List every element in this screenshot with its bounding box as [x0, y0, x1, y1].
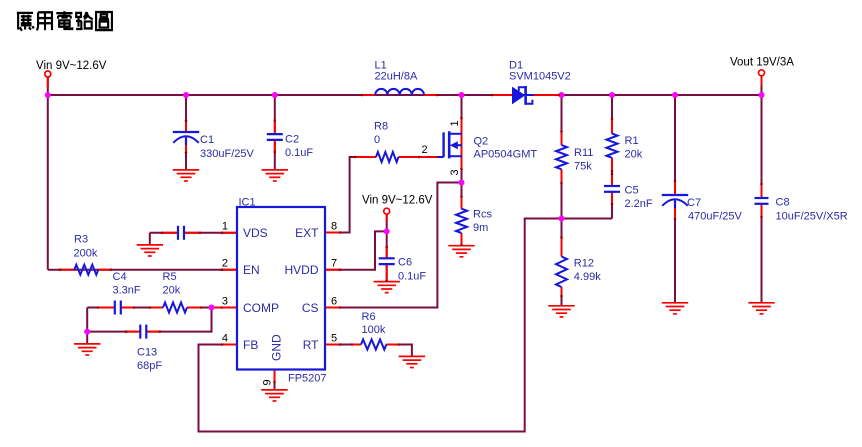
svg-text:GND: GND	[270, 334, 284, 361]
ground below pin 9	[261, 390, 287, 401]
wire Q2 source lead to node	[461, 156, 463, 182]
wire lower node to ground	[86, 332, 88, 344]
pin stub C8 top	[761, 184, 763, 198]
svg-text:CS: CS	[302, 301, 319, 315]
wire R5 right to COMP node	[187, 307, 212, 309]
svg-text:3.3nF: 3.3nF	[113, 285, 141, 297]
pin stub Rcs bottom	[461, 233, 463, 245]
title glyph 電	[56, 11, 72, 29]
svg-text:Vout 19V/3A: Vout 19V/3A	[730, 57, 794, 69]
svg-text:470uF/25V: 470uF/25V	[688, 211, 742, 223]
svg-text:C6: C6	[398, 257, 412, 269]
wire R1 top lead	[611, 95, 613, 134]
svg-text:Vin 9V~12.6V: Vin 9V~12.6V	[362, 195, 433, 207]
node Vout rail right corner	[759, 92, 765, 98]
svg-text:R12: R12	[574, 258, 594, 270]
pin end dots	[59, 94, 763, 384]
svg-text:330uF/25V: 330uF/25V	[200, 148, 254, 160]
svg-text:2: 2	[422, 144, 428, 156]
svg-text:3: 3	[449, 169, 461, 175]
pin stub Vout port	[761, 76, 763, 86]
svg-text:R6: R6	[362, 311, 376, 323]
svg-text:Rcs: Rcs	[473, 209, 492, 221]
pin stub C7 bottom	[674, 207, 676, 219]
ground below R12	[548, 306, 574, 317]
pin stub R1 bottom	[611, 158, 613, 171]
wire RT pin 5 to R6	[325, 344, 361, 346]
pin stub IC1 pin 5	[325, 344, 340, 346]
svg-text:4.99k: 4.99k	[574, 271, 601, 283]
wire R11 bottom to FB node	[561, 169, 563, 218]
wire C3 left lead	[150, 232, 177, 234]
svg-text:3: 3	[222, 295, 228, 307]
svg-text:Q2: Q2	[474, 136, 489, 148]
resistor R8 body	[376, 152, 399, 162]
node C1 on Vin rail	[183, 92, 189, 98]
wire C13 right up to COMP node	[146, 308, 212, 332]
ground below C1	[173, 170, 199, 181]
wire Rcs bottom to ground	[461, 233, 463, 246]
capacitor C3	[178, 226, 184, 240]
resistor R1 body	[607, 134, 618, 158]
svg-text:1: 1	[449, 120, 461, 126]
wire CS route from Q2 source to pin 6	[325, 183, 462, 308]
ground below C7	[662, 303, 688, 314]
svg-text:R3: R3	[74, 234, 88, 246]
wire top Vin rail	[48, 94, 762, 96]
pin stub R12 top	[561, 238, 563, 257]
ground below compensation node	[74, 344, 100, 355]
pin stub R3 left	[60, 269, 74, 271]
svg-text:Vin 9V~12.6V: Vin 9V~12.6V	[36, 60, 107, 72]
title glyph 用	[37, 12, 52, 30]
wire node to Rcs top	[461, 183, 463, 209]
svg-text:2: 2	[222, 258, 228, 270]
wire C6 bottom to ground	[386, 264, 388, 282]
pin stub C1 top	[185, 121, 187, 132]
wire Vin port to C6 top	[386, 214, 388, 258]
wire Q2 drain lead	[461, 95, 463, 134]
capacitor C13	[140, 325, 146, 339]
wire EN row (pin 2)	[48, 269, 237, 271]
wire R12 bottom to ground	[561, 287, 563, 306]
svg-text:C7: C7	[687, 197, 701, 209]
wire C3 ground drop	[149, 233, 151, 245]
wire loop left vertical	[86, 308, 88, 332]
svg-text:20k: 20k	[625, 149, 643, 161]
pin stub C3 left	[162, 232, 177, 234]
capacitor C2	[267, 134, 283, 140]
pin stub IC1 pin 7	[325, 269, 340, 271]
svg-text:4: 4	[222, 332, 228, 344]
diode D1 Schottky	[512, 86, 534, 105]
wire HVDD pin 7 to Vin node	[325, 231, 387, 269]
svg-text:9m: 9m	[473, 222, 488, 234]
wire C2 top lead	[274, 95, 276, 134]
pin stub C4 left	[98, 307, 115, 309]
wire C4 right to R5 left	[121, 307, 163, 309]
wire C8 top lead	[761, 95, 763, 196]
pin stub C5 top	[611, 174, 613, 186]
node R1 on Vout rail	[609, 92, 615, 98]
transistor Q2 N-MOSFET	[438, 131, 462, 158]
ground below C2	[262, 170, 288, 181]
pin stub R3 right	[98, 269, 111, 271]
svg-text:20k: 20k	[163, 285, 181, 297]
wire C3 right lead to pin 1	[185, 232, 237, 234]
svg-text:22uH/8A: 22uH/8A	[375, 70, 418, 82]
resistor R5 body	[163, 303, 187, 313]
pin stub IC1 pin 3	[214, 307, 237, 309]
svg-text:R5: R5	[163, 271, 177, 283]
node R11 on Vout rail	[559, 92, 565, 98]
pin stub C13 left	[126, 331, 140, 333]
node COMP loop	[209, 305, 215, 311]
pin stub C2 bottom	[274, 141, 276, 153]
pin stub C4 right	[121, 307, 134, 309]
wire C1 bottom lead to ground	[185, 143, 187, 170]
capacitor C4	[115, 301, 121, 315]
ground below C8	[748, 303, 774, 314]
wire C8 bottom lead to ground	[761, 204, 763, 303]
wire R1 bottom to C5 top	[611, 158, 613, 186]
pin stub Q2 drain-source vertical	[461, 118, 463, 169]
ground below C3 left	[137, 245, 163, 256]
pin stub R6 left	[352, 344, 361, 346]
wire Vout port drop	[761, 76, 763, 95]
svg-text:EN: EN	[243, 263, 260, 277]
capacitor C8	[755, 198, 769, 204]
node Q2 drain on rail	[459, 92, 465, 98]
svg-text:0: 0	[374, 134, 380, 146]
pin stub IC1 pin 9	[274, 370, 276, 383]
svg-text:FP5207: FP5207	[288, 373, 327, 385]
pin stub Vin port	[47, 77, 49, 88]
svg-text:C4: C4	[113, 271, 127, 283]
svg-text:6: 6	[331, 295, 337, 307]
pin stub IC1 pin 1	[222, 232, 237, 234]
pin stub C13 right	[147, 331, 161, 333]
svg-text:2.2nF: 2.2nF	[625, 198, 653, 210]
pin stub C1 bottom	[185, 145, 187, 153]
wire R11 top lead	[561, 95, 563, 145]
wire C5 bottom to FB node row	[611, 192, 613, 219]
pin stub IC1 pin 8	[325, 232, 340, 234]
pin stub C8 bottom	[761, 204, 763, 217]
capacitor C5	[604, 186, 620, 192]
svg-text:C1: C1	[200, 134, 214, 146]
svg-text:AP0504GMT: AP0504GMT	[474, 149, 538, 161]
wire C7 bottom lead to ground	[674, 206, 676, 303]
pin stub D1 cathode	[534, 94, 560, 96]
svg-text:C8: C8	[776, 197, 790, 209]
capacitor C6	[379, 258, 395, 264]
wire FB feedback route	[199, 219, 613, 432]
pin stub D1 anode	[492, 94, 512, 96]
port Vout output	[759, 70, 765, 76]
svg-text:8: 8	[331, 221, 337, 233]
svg-text:C5: C5	[625, 185, 639, 197]
port Vin mid	[384, 208, 390, 214]
wire left vertical from Vin rail to R3 row	[47, 95, 49, 270]
wire pin 9 to ground	[274, 370, 276, 390]
ground below C6	[374, 282, 400, 293]
pin stub IC1 pin 6	[325, 307, 340, 309]
svg-text:0.1uF: 0.1uF	[398, 271, 426, 283]
node C2 on Vin rail	[272, 92, 278, 98]
pin stub Rcs top	[461, 197, 463, 209]
resistor R11 body	[556, 145, 567, 169]
svg-text:100k: 100k	[362, 324, 386, 336]
pin stub R11 bottom	[561, 169, 563, 183]
node compensation ground	[84, 329, 90, 335]
svg-text:VDS: VDS	[243, 226, 268, 240]
wire lower loop to C13	[87, 331, 141, 333]
wire C1 top lead	[185, 95, 187, 132]
wire R8 right to Q2 gate	[398, 156, 438, 158]
svg-text:75k: 75k	[574, 161, 592, 173]
inductor L1	[375, 89, 424, 95]
svg-text:C2: C2	[285, 134, 299, 146]
svg-text:EXT: EXT	[295, 226, 319, 240]
svg-text:7: 7	[331, 258, 337, 270]
node FB divider	[559, 216, 565, 222]
wire C7 top lead	[674, 95, 676, 195]
resistor Rcs body	[456, 209, 467, 233]
wire EXT pin 8 to R8 left	[325, 157, 376, 233]
svg-text:9: 9	[262, 379, 274, 385]
pin stub R1 top	[611, 119, 613, 134]
wire C2 bottom lead to ground	[274, 140, 276, 170]
pin stub Vin mid port	[386, 214, 388, 222]
title glyph 圖	[96, 12, 112, 30]
ground below R6	[399, 356, 425, 367]
wire loop left to C4	[87, 307, 115, 309]
node C7 on Vout rail	[672, 92, 678, 98]
pin stub C7 top	[674, 181, 676, 195]
node Q2 source / Rcs / CS	[459, 180, 465, 186]
op-amp/controller IC1 FP5207 body	[237, 207, 325, 370]
ground below Rcs	[448, 246, 474, 257]
title glyph 路	[76, 12, 93, 29]
svg-text:1: 1	[222, 221, 228, 233]
port Vin input	[45, 71, 51, 77]
svg-text:RT: RT	[303, 338, 319, 352]
svg-text:0.1uF: 0.1uF	[285, 147, 313, 159]
svg-text:C13: C13	[137, 347, 157, 359]
svg-text:68pF: 68pF	[137, 360, 162, 372]
wire FB node to R12 top	[561, 219, 563, 257]
pin stub R5 right	[187, 307, 201, 309]
svg-text:R11: R11	[574, 147, 593, 159]
pin stub L1 right	[424, 94, 438, 96]
title glyph 應	[17, 13, 34, 31]
pin stub C2 top	[274, 121, 276, 134]
pin stub R5 left	[150, 307, 163, 309]
svg-text:5: 5	[331, 332, 337, 344]
pin stub IC1 pin 4	[222, 344, 237, 346]
pin stub IC1 pin 2	[222, 269, 237, 271]
pin stub R11 top	[561, 132, 563, 146]
pin stub C6 bottom	[386, 264, 388, 281]
wire Vin port drop	[47, 77, 49, 95]
svg-text:HVDD: HVDD	[284, 263, 318, 277]
pin stub C6 top	[386, 247, 388, 258]
wire COMP node to pin 3	[212, 307, 238, 309]
pin stub R6 right	[386, 344, 399, 346]
pin stub R8 left	[355, 156, 376, 158]
pin stub C5 bottom	[611, 192, 613, 204]
svg-text:200k: 200k	[74, 247, 98, 259]
pin stub C3 right	[186, 232, 201, 234]
resistor R6 body	[361, 340, 386, 350]
wire R6 right to ground	[386, 345, 412, 357]
capacitor C7 (polarized)	[662, 195, 688, 208]
svg-text:R1: R1	[625, 135, 639, 147]
resistor R12 body	[556, 257, 567, 288]
node HVDD / Vin mid / C6	[384, 228, 390, 234]
pin stub L1 left	[362, 94, 376, 96]
node Vin rail left corner	[45, 92, 51, 98]
pin stub R8 right / Q2 gate	[398, 156, 437, 158]
pin stub R12 bottom	[561, 287, 563, 296]
svg-text:SVM1045V2: SVM1045V2	[509, 70, 571, 82]
svg-text:COMP: COMP	[243, 301, 279, 315]
svg-text:IC1: IC1	[239, 197, 256, 209]
svg-text:R8: R8	[374, 121, 388, 133]
resistor R3 body	[74, 265, 98, 275]
capacitor C1 (polarized)	[173, 132, 199, 145]
svg-text:10uF/25V/X5R: 10uF/25V/X5R	[776, 211, 848, 223]
svg-text:FB: FB	[243, 338, 258, 352]
